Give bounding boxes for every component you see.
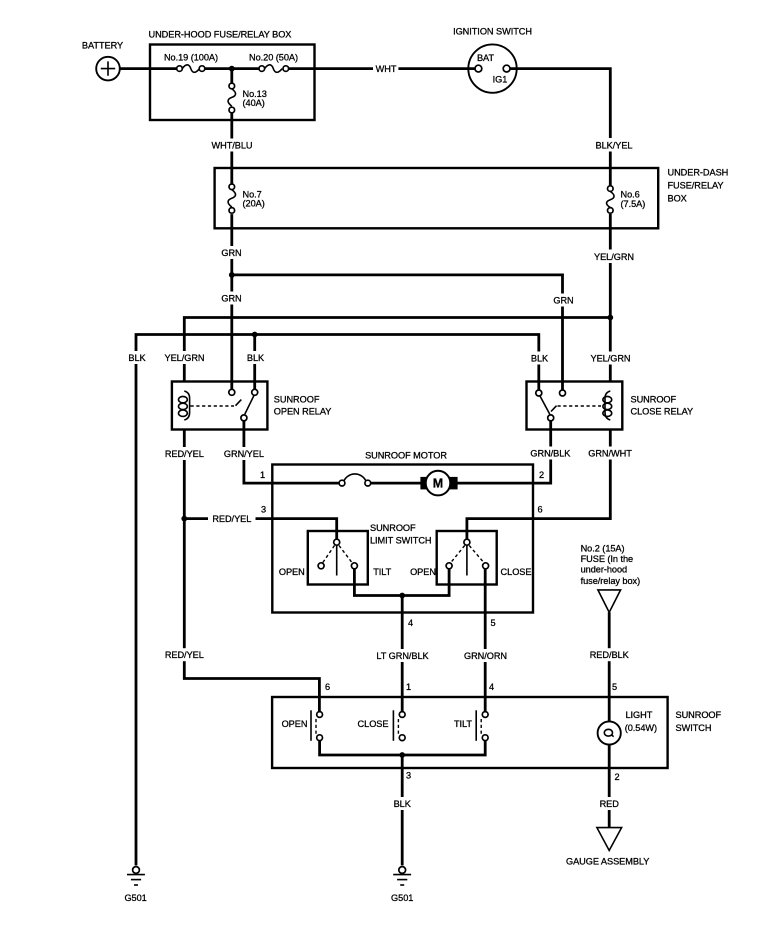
svg-text:fuse/relay box): fuse/relay box) — [581, 576, 641, 586]
circuit breaker in motor — [339, 474, 371, 486]
svg-text:OPEN: OPEN — [279, 567, 305, 577]
fuse No.20 (50A) — [249, 52, 298, 72]
svg-text:UNDER-DASH: UNDER-DASH — [668, 167, 729, 177]
junction bus at fuse No.13 — [229, 66, 235, 72]
svg-text:FUSE/RELAY: FUSE/RELAY — [668, 180, 724, 190]
svg-text:4: 4 — [489, 682, 494, 692]
wire sunroof switch pin 3 BLK to ground — [401, 755, 404, 865]
ignition switch — [453, 27, 532, 93]
wire GRN branch to close relay pin — [232, 275, 563, 390]
net label BLK/YEL — [594, 138, 632, 152]
wire RED/YEL branch to motor pin 3 limit switch common — [184, 519, 336, 540]
svg-text:WHT: WHT — [376, 64, 397, 74]
svg-text:TILT: TILT — [373, 567, 391, 577]
svg-text:GAUGE ASSEMBLY: GAUGE ASSEMBLY — [566, 857, 649, 867]
wire junction to fuse No.13 top — [230, 69, 233, 84]
svg-text:3: 3 — [406, 770, 411, 780]
svg-text:M: M — [433, 477, 443, 491]
pin 1 motor — [260, 470, 265, 480]
svg-text:YEL/GRN: YEL/GRN — [594, 252, 634, 262]
svg-text:YEL/GRN: YEL/GRN — [165, 353, 205, 363]
svg-text:GRN/YEL: GRN/YEL — [224, 449, 264, 459]
svg-text:SUNROOF: SUNROOF — [370, 523, 416, 533]
pin 3 sunroof switch — [406, 770, 411, 780]
junction limit switch link — [399, 593, 405, 599]
sunroof switch box — [272, 697, 721, 768]
svg-text:BLK/YEL: BLK/YEL — [596, 140, 633, 150]
junction sunroof switch bottom — [399, 752, 405, 758]
svg-text:OPEN: OPEN — [410, 567, 436, 577]
sunroof limit switch right box — [370, 523, 497, 585]
svg-text:BLK: BLK — [394, 799, 412, 809]
net label GRN/BLK below close relay — [530, 447, 571, 460]
wire fuse No.2 to light bulb — [608, 612, 611, 721]
svg-text:(40A): (40A) — [243, 98, 265, 108]
wire fuse No.13 bottom to fuse No.7 (WHT/BLU) — [230, 113, 233, 184]
pin 5 motor — [490, 618, 495, 628]
svg-text:BATTERY: BATTERY — [82, 41, 123, 51]
open relay coil — [179, 391, 190, 420]
junction GRN split — [229, 272, 235, 278]
svg-text:OPEN: OPEN — [282, 719, 308, 729]
limit switch right contacts — [410, 539, 531, 577]
svg-text:SUNROOF: SUNROOF — [274, 394, 320, 404]
fuse No.19 (100A) — [164, 52, 218, 72]
svg-text:No.20 (50A): No.20 (50A) — [249, 52, 298, 62]
svg-text:RED/YEL: RED/YEL — [165, 650, 204, 660]
under-dash fuse/relay box — [215, 167, 729, 228]
net label RED — [600, 797, 620, 810]
net label YEL/GRN below fuse No.6 — [594, 250, 634, 264]
under-hood fuse/relay box — [149, 30, 315, 121]
pin 5 sunroof switch — [612, 682, 617, 692]
svg-text:RED: RED — [600, 799, 620, 809]
wire WHT label to ignition switch BAT pin — [398, 67, 475, 70]
wire fuse No.20 to WHT label — [289, 67, 373, 70]
svg-text:(20A): (20A) — [243, 199, 265, 209]
svg-text:BLK: BLK — [128, 353, 146, 363]
close relay link dashes — [551, 406, 601, 412]
net label BLK left rail — [127, 351, 147, 364]
svg-text:RED/BLK: RED/BLK — [590, 650, 630, 660]
wire GRN/YEL open relay output to motor pin 1 — [244, 421, 272, 483]
svg-text:(7.5A): (7.5A) — [621, 199, 646, 209]
svg-text:GRN/ORN: GRN/ORN — [464, 651, 507, 661]
svg-text:BOX: BOX — [668, 193, 687, 203]
wire light bulb to gauge assembly — [608, 745, 611, 828]
open relay contacts and arm — [229, 389, 258, 421]
svg-text:GRN/BLK: GRN/BLK — [530, 449, 571, 459]
ground G501 left — [124, 867, 146, 903]
svg-text:RED/YEL: RED/YEL — [212, 514, 251, 524]
net label RED/BLK — [590, 648, 630, 661]
svg-text:CLOSE RELAY: CLOSE RELAY — [631, 407, 694, 417]
fuse No.6 (7.5A) — [607, 186, 646, 213]
wire BLK branch to open relay contact — [253, 335, 256, 391]
svg-text:LIMIT SWITCH: LIMIT SWITCH — [370, 535, 432, 545]
net label GRN below fuse No.7 — [221, 246, 242, 259]
svg-text:SUNROOF MOTOR: SUNROOF MOTOR — [365, 451, 447, 461]
net label GRN to open relay — [221, 292, 242, 305]
svg-text:G501: G501 — [391, 893, 413, 903]
wire GRN/WHT close relay coil to motor pin 6 limit switch common — [467, 430, 610, 540]
net label BLK to open relay contact — [246, 351, 265, 364]
junction BLK split — [252, 332, 258, 338]
svg-text:6: 6 — [537, 504, 542, 514]
wire bus between fuse No.19 and No.20 — [205, 67, 259, 70]
net label RED/YEL to sunroof switch — [165, 648, 204, 661]
svg-text:BLK: BLK — [247, 353, 265, 363]
battery — [82, 41, 123, 81]
wire BLK ground line: left ground up, across, down to close relay contact — [136, 335, 539, 866]
net label LT GRN/BLK — [376, 649, 430, 662]
close relay coil — [603, 391, 612, 420]
wire motor pin 4 to sunroof switch CLOSE contact — [401, 596, 404, 712]
svg-text:CLOSE: CLOSE — [358, 719, 389, 729]
svg-text:IGNITION SWITCH: IGNITION SWITCH — [453, 27, 532, 37]
pin 3 motor — [261, 504, 266, 514]
svg-text:GRN: GRN — [553, 296, 573, 306]
svg-text:2: 2 — [539, 470, 544, 480]
close relay contacts and arm — [536, 390, 566, 421]
svg-text:CLOSE: CLOSE — [501, 567, 532, 577]
net label GRN/YEL — [224, 447, 264, 460]
wire limit switch TILT/OPEN link — [354, 569, 449, 596]
svg-text:BLK: BLK — [531, 354, 549, 364]
sunroof close relay box — [527, 382, 694, 430]
svg-text:3: 3 — [261, 504, 266, 514]
svg-text:2: 2 — [614, 772, 619, 782]
gauge assembly connector triangle — [566, 828, 649, 867]
svg-text:UNDER-HOOD FUSE/RELAY BOX: UNDER-HOOD FUSE/RELAY BOX — [149, 30, 292, 40]
sunroof limit switch left box — [308, 531, 368, 585]
wire motor inner bus right — [371, 482, 533, 485]
net label GRN/WHT — [588, 447, 632, 460]
svg-text:SUNROOF: SUNROOF — [631, 394, 677, 404]
open relay link dashes — [191, 400, 242, 406]
junction YEL/GRN split — [607, 315, 613, 321]
fuse No.7 (20A) — [228, 184, 265, 213]
junction RED/YEL split — [181, 516, 187, 522]
net label RED/YEL to pin 3 — [208, 512, 256, 525]
svg-text:SWITCH: SWITCH — [676, 723, 712, 733]
net label BLK to ground — [393, 797, 412, 810]
svg-text:BAT: BAT — [477, 53, 494, 63]
svg-text:5: 5 — [612, 682, 617, 692]
svg-text:RED/YEL: RED/YEL — [165, 449, 204, 459]
pin 2 motor — [539, 470, 544, 480]
svg-text:LT GRN/BLK: LT GRN/BLK — [376, 651, 429, 661]
svg-text:No.2 (15A): No.2 (15A) — [581, 544, 625, 554]
svg-text:under-hood: under-hood — [581, 565, 628, 575]
svg-text:FUSE (In the: FUSE (In the — [581, 554, 634, 564]
sunroof open relay box — [172, 382, 331, 430]
pin 6 sunroof switch — [325, 682, 330, 692]
net label BLK to close relay contact — [530, 352, 549, 365]
svg-text:TILT: TILT — [454, 719, 472, 729]
wire fuse No.7 bottom to open relay GRN pin — [230, 214, 233, 389]
svg-text:No.6: No.6 — [621, 189, 640, 199]
limit switch left contacts — [279, 539, 392, 577]
wire battery to under-hood box — [120, 67, 177, 70]
svg-text:No.19 (100A): No.19 (100A) — [164, 52, 218, 62]
sunroof switch OPEN button — [282, 710, 323, 741]
svg-text:5: 5 — [490, 618, 495, 628]
net label YEL/GRN to open relay coil — [165, 351, 205, 364]
sunroof motor box — [272, 451, 533, 613]
svg-text:YEL/GRN: YEL/GRN — [591, 354, 631, 364]
wire YEL/GRN distribution line to open relay coil — [184, 318, 610, 382]
svg-text:GRN/WHT: GRN/WHT — [588, 449, 632, 459]
svg-text:IG1: IG1 — [493, 75, 508, 85]
ground G501 middle — [391, 867, 413, 903]
wire motor inner bus left — [272, 482, 339, 485]
wire GRN/BLK close relay output to motor pin 2 — [533, 421, 551, 483]
pin 2 sunroof switch — [614, 772, 619, 782]
net label RED/YEL below open relay — [165, 447, 204, 460]
net label WHT/BLU — [212, 139, 253, 152]
fuse No.13 (40A) — [228, 83, 267, 113]
svg-text:LIGHT: LIGHT — [626, 710, 653, 720]
sunroof switch TILT button — [454, 710, 488, 741]
wire sunroof switch bottom link — [320, 741, 486, 756]
pin 4 motor — [408, 618, 413, 628]
svg-text:1: 1 — [260, 470, 265, 480]
pin 6 motor — [537, 504, 542, 514]
svg-text:G501: G501 — [124, 893, 146, 903]
net label GRN to close relay — [553, 294, 574, 307]
fuse No.2 connector triangle — [581, 544, 641, 613]
net label WHT — [376, 64, 397, 74]
wire ignition IG1 pin to right rail down to fuse No.6 — [510, 69, 610, 186]
net label GRN/ORN — [464, 649, 507, 662]
svg-text:6: 6 — [325, 682, 330, 692]
svg-text:4: 4 — [408, 618, 413, 628]
net label YEL/GRN to close relay coil — [591, 352, 631, 365]
light bulb — [598, 710, 657, 745]
svg-text:SUNROOF: SUNROOF — [676, 710, 722, 720]
pin 4 sunroof switch — [489, 682, 494, 692]
svg-text:1: 1 — [406, 682, 411, 692]
svg-text:GRN: GRN — [221, 248, 241, 258]
svg-text:GRN: GRN — [221, 294, 241, 304]
svg-text:WHT/BLU: WHT/BLU — [212, 140, 253, 150]
motor M1 — [420, 471, 457, 496]
svg-text:(0.54W): (0.54W) — [625, 723, 657, 733]
wire fuse No.6 bottom down to YEL/GRN junction and close relay coil — [609, 214, 612, 382]
sunroof switch CLOSE button — [358, 710, 406, 741]
wire RED/YEL open relay coil down to sunroof switch pin 6 — [184, 430, 319, 712]
svg-text:OPEN RELAY: OPEN RELAY — [274, 407, 332, 417]
pin 1 sunroof switch — [406, 682, 411, 692]
wire motor pin 5 limit CLOSE contact to sunroof switch TILT contact — [484, 569, 487, 712]
